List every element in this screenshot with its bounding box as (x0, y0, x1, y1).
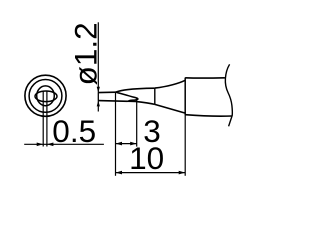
end view middle circle (29, 80, 62, 113)
dim 3 line (116, 143, 137, 145)
end view inner circle (37, 86, 55, 106)
cone junction vertical line (154, 88, 156, 104)
tip bottom edge (98, 100, 135, 103)
dim 0.5 right arrow (47, 143, 54, 147)
end view outer circle (25, 75, 66, 116)
dim phi1.2 line upper (97, 22, 99, 92)
cylinder bottom edge (185, 115, 232, 117)
tip face line (97, 93, 99, 101)
shoulder vertical line (184, 78, 186, 115)
cone stage2 top (155, 80, 185, 88)
dim phi1.2 lower arrow (97, 101, 100, 107)
dim 10 left arrow (116, 171, 123, 175)
dim phi1.2 line lower (97, 101, 99, 112)
extension line right of 3 dim (136, 98, 138, 147)
dim 3 left arrow (116, 142, 123, 146)
dim 0.5 line (24, 143, 104, 145)
dim 10 right arrow (179, 171, 186, 175)
svg-text:10: 10 (129, 140, 164, 176)
svg-text:0.5: 0.5 (52, 113, 96, 149)
extension line left (tip) (115, 92, 117, 176)
dim phi1.2 upper arrow (97, 87, 100, 93)
chisel edge right line (46, 91, 48, 146)
cone stage2 bottom (155, 104, 185, 113)
svg-text:ø1.2: ø1.2 (68, 22, 104, 85)
cylinder top edge (185, 77, 225, 79)
cone stage1 top (116, 88, 155, 92)
break line (S-curve) (225, 64, 232, 126)
dim 0.5 left arrow (37, 143, 44, 147)
dim 3 right arrow (130, 142, 137, 146)
tip top edge (98, 91, 116, 93)
chisel edge left line (42, 91, 44, 146)
extension line for 10 dim (shoulder) (184, 114, 186, 175)
dim 10 line (116, 172, 186, 174)
cone stage1 bottom (136, 101, 155, 104)
chisel flat lens curve (side view) (116, 92, 138, 101)
end view chisel face ellipse (35, 91, 57, 102)
